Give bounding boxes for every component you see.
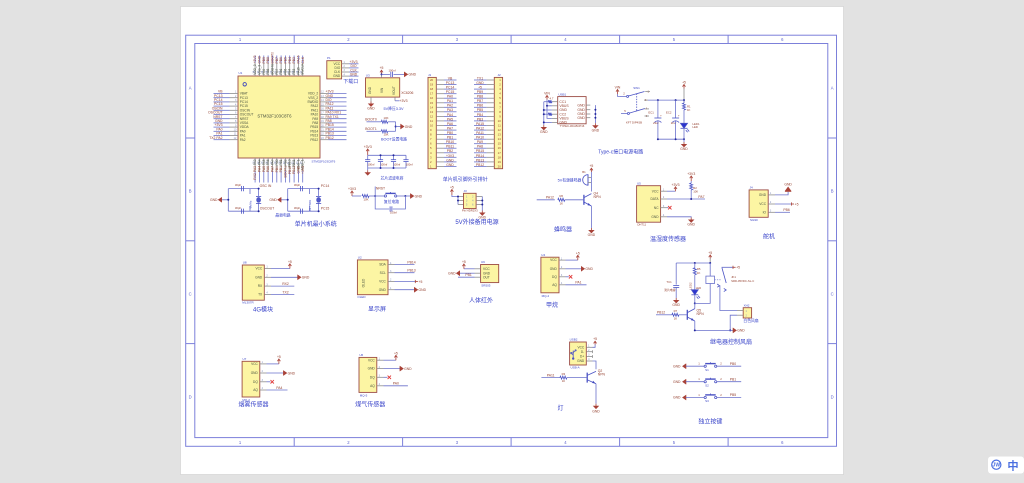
pin 2 (J2) net GND: [474, 81, 501, 87]
svg-text:J1: J1: [428, 73, 432, 77]
pin NC (U5): [654, 205, 667, 210]
svg-text:GND: GND: [302, 276, 310, 280]
svg-text:中: 中: [1008, 458, 1019, 472]
svg-text:PB0: PB0: [730, 362, 737, 366]
svg-text:VB: VB: [448, 76, 453, 80]
svg-text:16: 16: [498, 146, 502, 150]
svg-text:PA4: PA4: [258, 166, 262, 172]
svg-text:19: 19: [498, 160, 502, 164]
crystal oscillator circuit 32.768K: [288, 189, 319, 212]
pin PB11 (U1 bottom 10): [292, 158, 297, 183]
svg-text:10K: 10K: [384, 116, 389, 120]
pin GND (U8): [255, 275, 271, 280]
ground (relay): [733, 328, 736, 332]
ground (filter caps): [365, 168, 370, 175]
svg-text:OUT: OUT: [483, 275, 490, 279]
svg-text:18: 18: [498, 155, 502, 159]
ground (usb left): [540, 125, 548, 134]
ground (key S1): [673, 362, 704, 369]
svg-text:PA12: PA12: [476, 127, 484, 131]
power +5 (relay): [708, 251, 712, 263]
power +5 (typec out): [682, 81, 686, 104]
svg-text:MQ-5: MQ-5: [360, 394, 368, 398]
pin PA3 (U1 bottom 1): [253, 158, 258, 183]
pin 17 (J2) net PB15: [474, 149, 501, 155]
capacitor 100nf (filter C2): [378, 154, 388, 169]
pin 20 (J1) net VB: [430, 76, 457, 82]
pin 5 (J1) net PB11: [430, 145, 457, 151]
resistor R1 1K: [683, 100, 692, 126]
svg-text:GND: GND: [476, 81, 484, 85]
pin PB13 (U1 right 11): [310, 132, 346, 138]
svg-text:GND: GND: [367, 107, 375, 111]
svg-text:GND: GND: [592, 129, 600, 133]
svg-text:GND: GND: [673, 364, 681, 368]
svg-text:GND: GND: [687, 223, 695, 227]
svg-text:R6: R6: [560, 194, 564, 198]
svg-text:TX2: TX2: [282, 290, 288, 294]
connector P1 download port: [327, 56, 342, 79]
wire filter cap bus: [368, 155, 406, 168]
svg-text:PA11: PA11: [476, 131, 484, 135]
capacitor 100nf (filter C1): [365, 155, 375, 168]
no-connect X (mq2 DQ): [267, 380, 274, 383]
pin 6 (J1) net PB10: [430, 140, 457, 146]
svg-text:GND: GND: [737, 329, 745, 333]
svg-text:XC6206: XC6206: [401, 91, 413, 95]
power +5 (oled): [395, 280, 423, 284]
pin SDA (U2): [379, 262, 394, 267]
svg-text:U4: U4: [541, 253, 545, 257]
svg-text:GND: GND: [673, 380, 681, 384]
svg-text:+5: +5: [450, 186, 454, 190]
svg-text:B: B: [831, 189, 834, 194]
wire key S1 to PB0: [717, 362, 741, 367]
svg-text:30pF: 30pF: [235, 206, 242, 210]
svg-text:1K: 1K: [674, 316, 678, 320]
svg-text:GND: GND: [446, 158, 454, 162]
svg-text:5V有源蜂鸣器: 5V有源蜂鸣器: [558, 177, 582, 182]
pin DIO (P1): [335, 64, 359, 70]
svg-text:SRD-05VDC-SL-C: SRD-05VDC-SL-C: [731, 279, 754, 283]
svg-text:TX2 PA2: TX2 PA2: [209, 136, 222, 140]
pin 5 (J2) net PB8: [474, 95, 501, 101]
sensor U9 PIR SR505: [481, 260, 499, 287]
svg-text:GND: GND: [577, 359, 585, 363]
svg-text:GND: GND: [672, 303, 680, 307]
svg-text:GND: GND: [251, 371, 259, 375]
capacitor 30pF (bottom, Y1): [235, 206, 244, 214]
pin GND (USB1 right): [577, 112, 590, 116]
wire fan pin2 to gnd: [729, 315, 737, 331]
pin GND (U9): [475, 271, 491, 275]
capacitor 100nf (filter C4): [403, 155, 413, 168]
pin 2 (J1) net GND: [430, 158, 457, 164]
pin PA4 (U1 bottom 2): [257, 158, 262, 183]
svg-text:11: 11: [498, 124, 501, 128]
pin 3 (J2) net +5: [474, 86, 501, 92]
pin GND (USB1 left): [552, 108, 568, 112]
pin GND (USB1 left): [552, 121, 568, 125]
pin VDD_1 (U1 bottom 12): [300, 158, 305, 183]
pin AQ (U7): [253, 387, 266, 392]
svg-text:煤气传感器: 煤气传感器: [355, 400, 385, 408]
pin 15 (J2) net PA9: [474, 140, 501, 146]
pin 10 (J2) net PB3: [474, 117, 501, 123]
pin 18 (J2) net PB14: [474, 154, 501, 160]
svg-text:GND: GND: [415, 194, 423, 198]
svg-text:GND: GND: [759, 193, 767, 197]
svg-text:GND: GND: [255, 275, 263, 279]
svg-text:B: B: [189, 189, 192, 194]
wire IO to PB6: [775, 208, 790, 212]
svg-text:10: 10: [498, 119, 502, 123]
pin 6 (J2) net PB7: [474, 99, 501, 105]
pin PB3 (U1 top 10): [292, 56, 297, 77]
svg-text:30pF: 30pF: [294, 183, 301, 187]
pin PB10 (U1 bottom 9): [287, 158, 292, 183]
resistor R3 1K (lamp base): [541, 372, 587, 383]
svg-text:+5: +5: [394, 351, 398, 355]
svg-text:NC: NC: [654, 206, 659, 210]
ground (key S3): [673, 393, 704, 400]
svg-text:16: 16: [430, 96, 434, 100]
wire buzzer to collector: [590, 172, 592, 192]
svg-text:+5: +5: [795, 202, 799, 206]
wire OUT to PB1 (pir): [458, 273, 475, 277]
svg-text:IO: IO: [763, 210, 767, 214]
svg-text:ML307R: ML307R: [242, 300, 254, 304]
svg-text:CLK: CLK: [301, 56, 305, 63]
svg-text:GND: GND: [350, 72, 358, 76]
svg-text:VCC: VCC: [368, 358, 375, 362]
pin VSS_1 (U1 bottom 11): [296, 158, 301, 183]
svg-text:30pF: 30pF: [235, 183, 242, 187]
svg-text:AQ: AQ: [552, 283, 557, 287]
ground (reset): [404, 194, 422, 198]
svg-text:SG90: SG90: [750, 218, 758, 222]
ground (pir): [448, 271, 474, 275]
svg-text:PB1: PB1: [465, 273, 472, 277]
pin GND (U7): [251, 370, 267, 375]
pin PA0 (U1 left 10): [214, 127, 246, 133]
svg-text:芯片滤波电容: 芯片滤波电容: [381, 176, 404, 181]
svg-text:U6: U6: [359, 353, 363, 357]
pin 15 (J1) net PA1: [430, 99, 457, 105]
svg-text:瓷片电容: 瓷片电容: [664, 288, 675, 292]
pin VCC (U9): [475, 267, 491, 271]
pin 1 (J1) net GND: [430, 163, 457, 169]
pin VDDA (U1 left 9): [214, 123, 250, 129]
svg-text:+3V3: +3V3: [348, 187, 356, 191]
node OSC IN: [258, 184, 272, 190]
svg-text:U1: U1: [239, 71, 243, 75]
svg-text:19: 19: [430, 83, 434, 87]
svg-text:PA10: PA10: [476, 136, 484, 140]
svg-text:PB1: PB1: [730, 377, 737, 381]
svg-text:PA3: PA3: [447, 108, 453, 112]
svg-text:PB6: PB6: [477, 104, 484, 108]
svg-text:GND: GND: [405, 125, 413, 129]
wire TX to TX2: [271, 290, 294, 294]
svg-text:独立按键: 独立按键: [698, 418, 722, 426]
pin VCC (P1): [333, 60, 358, 66]
svg-text:12: 12: [430, 114, 434, 118]
power +5 (backup header): [450, 190, 453, 196]
power +5 (4G): [271, 260, 292, 269]
ground (regulator input cap): [405, 72, 408, 76]
wire typec bottom bus: [657, 138, 685, 142]
svg-text:+3V3: +3V3: [399, 99, 407, 103]
wire AQ to PA4 (mq2): [267, 386, 288, 390]
pin PA2 (U1 left 12): [209, 136, 246, 142]
resistor R5 1K (relay led): [693, 263, 701, 290]
ground (dht): [667, 217, 696, 227]
resistor R6 1K (buzzer base): [537, 194, 584, 205]
svg-text:100nf: 100nf: [406, 162, 413, 166]
svg-text:GND: GND: [368, 86, 372, 94]
resistor R4 5.1K (CC1): [544, 97, 554, 104]
relay JK1 contacts: [717, 267, 754, 291]
power +5 (pir): [462, 260, 475, 269]
ground (oled): [395, 288, 427, 292]
pin OSCIN (U1 left 5): [212, 106, 251, 112]
svg-text:Type-c接口电源电路: Type-c接口电源电路: [598, 149, 643, 156]
crystal oscillator circuit 8MHz: [228, 189, 258, 212]
pin DQ (U7): [253, 379, 266, 384]
wire VBUS rail: [546, 100, 552, 119]
pin 12 (J1) net PA4: [430, 113, 457, 119]
pin SWCLK (U1 top 12): [300, 56, 305, 77]
svg-text:1K: 1K: [687, 108, 691, 112]
svg-text:PA7: PA7: [447, 127, 453, 131]
svg-text:D: D: [189, 395, 192, 400]
wire DATA to PA7: [667, 195, 705, 200]
pin NRST (U1 left 7): [213, 115, 248, 121]
display U2 OLED: [357, 256, 388, 299]
svg-text:STM32F103C8T6: STM32F103C8T6: [257, 113, 292, 118]
svg-text:MQ-4: MQ-4: [542, 294, 550, 298]
svg-text:PA12: PA12: [546, 196, 554, 200]
svg-text:温湿度传感器: 温湿度传感器: [650, 235, 686, 243]
svg-text:11: 11: [430, 119, 433, 123]
svg-text:GND: GND: [210, 198, 218, 202]
svg-text:100nf: 100nf: [389, 69, 396, 73]
ground (usb right): [593, 123, 598, 128]
svg-text:PB11: PB11: [446, 145, 454, 149]
capacitor TC1: [664, 263, 679, 298]
pin VSS_2 (U1 right 2): [308, 94, 346, 100]
wire SDA to PB14: [395, 261, 416, 265]
transistor Q2 NPN (lamp): [587, 369, 605, 384]
transistor Q5 NPN (relay): [687, 303, 704, 321]
pin 3 (J1) net +3V3: [430, 154, 457, 160]
pin GND (USB1 right): [577, 108, 590, 112]
pin TX (U8): [258, 292, 271, 297]
svg-text:GND: GND: [404, 367, 412, 371]
svg-text:R7: R7: [674, 309, 678, 313]
pin VSSA (U1 left 8): [214, 119, 250, 125]
power +3V3 (reset): [351, 191, 354, 196]
svg-text:GND: GND: [379, 288, 387, 292]
svg-text:GND: GND: [540, 130, 548, 134]
connector J4 servo SG90: [749, 186, 768, 222]
svg-text:PA4: PA4: [276, 386, 282, 390]
buzzer B1: [558, 170, 592, 185]
switch SW1 KFT DIP4SB: [620, 86, 650, 125]
svg-text:14: 14: [498, 137, 502, 141]
pin GND (U5): [651, 214, 667, 219]
ground (regulator GND pin): [367, 97, 375, 111]
pin VCC (U5): [652, 188, 667, 193]
svg-text:30pF: 30pF: [294, 206, 301, 210]
svg-text:C: C: [831, 292, 834, 297]
browser toolbar icons: [988, 457, 1024, 474]
svg-text:PB13: PB13: [476, 158, 484, 162]
pin PB1 (U1 bottom 7): [279, 158, 284, 183]
svg-text:5V降压3.3V: 5V降压3.3V: [383, 106, 404, 111]
wire gnd rail (backup header): [476, 197, 483, 211]
resistor R7 1K (relay base): [656, 309, 687, 320]
svg-text:4G模块: 4G模块: [253, 305, 273, 313]
svg-text:PC13: PC13: [446, 81, 455, 85]
svg-text:BOOT0: BOOT0: [365, 118, 377, 122]
svg-text:D+: D+: [580, 355, 584, 359]
svg-text:GND: GND: [577, 116, 585, 120]
svg-text:VIN: VIN: [544, 91, 550, 95]
svg-text:AQ: AQ: [370, 384, 375, 388]
svg-text:PB2: PB2: [447, 149, 454, 153]
sensor U6 MQ-5: [359, 353, 377, 398]
svg-text:S3: S3: [705, 399, 709, 403]
connector J1 header 20pin: [428, 73, 436, 169]
pin PA10 (U1 right 6): [311, 111, 347, 117]
resistor R2 10K (dht pullup): [687, 172, 698, 199]
wire key S3 to PB5: [717, 393, 741, 398]
pin PB15 (U1 right 9): [310, 123, 346, 129]
svg-text:GND: GND: [446, 163, 454, 167]
pin OUT (U9): [475, 275, 490, 279]
svg-text:甲烷: 甲烷: [546, 301, 558, 309]
svg-text:蜂鸣器: 蜂鸣器: [554, 225, 572, 233]
svg-text:+5: +5: [288, 260, 292, 264]
op-amp U1 STM32F103C8T6 MCU: [238, 71, 336, 163]
pin PB2 (U1 bottom 8): [283, 158, 288, 183]
svg-text:PB5: PB5: [730, 393, 737, 397]
wire usb2 gnd to collector: [593, 361, 597, 369]
pin DATA (U5): [650, 196, 667, 201]
svg-text:NPN: NPN: [697, 312, 705, 316]
wire RX to RX2: [271, 282, 294, 286]
svg-text:17: 17: [430, 92, 434, 96]
svg-text:DQ: DQ: [370, 375, 375, 379]
svg-text:PB12: PB12: [476, 163, 484, 167]
svg-text:10K: 10K: [384, 133, 389, 137]
svg-text:5V外接备用电源: 5V外接备用电源: [455, 218, 498, 226]
svg-text:100nf: 100nf: [393, 162, 400, 166]
svg-text:P1: P1: [327, 56, 331, 60]
svg-text:PA7: PA7: [271, 166, 275, 172]
pin 4 (J1) net PB2: [430, 149, 457, 155]
svg-text:+5: +5: [419, 280, 423, 284]
svg-text:白色风扇: 白色风扇: [743, 318, 758, 323]
pin 16 (J1) net PA0: [430, 95, 457, 101]
svg-text:U2: U2: [358, 256, 362, 260]
pin PB7 (U1 top 6): [274, 56, 279, 77]
ground (mq4): [566, 267, 594, 271]
svg-text:NRST: NRST: [376, 186, 385, 190]
pin PC15 (U1 left 4): [214, 102, 249, 108]
pin 20 (J2) net PB12: [474, 163, 501, 169]
sensor U4 MQ-4: [541, 253, 559, 298]
svg-text:15: 15: [498, 142, 502, 146]
pin CC2 (USB1 left): [552, 112, 566, 116]
svg-text:S1: S1: [705, 368, 709, 372]
wire relay top bus: [676, 262, 711, 264]
ground (buzzer): [588, 206, 596, 237]
svg-text:32.768K: 32.768K: [308, 200, 312, 211]
svg-text:舵机: 舵机: [763, 233, 775, 241]
wire AQ to PA0 (mq5): [384, 382, 408, 386]
resistor R9 10K (BOOT1): [365, 127, 395, 136]
power +5 (servo): [775, 202, 799, 206]
pin GND (P1): [333, 72, 358, 78]
svg-text:USB2: USB2: [570, 338, 578, 342]
pin D- (USB2): [581, 349, 593, 354]
svg-text:VCC: VCC: [379, 280, 386, 284]
svg-text:GND: GND: [588, 233, 596, 237]
connector J2 header 20pin: [494, 73, 502, 169]
ground (lamp): [592, 384, 600, 414]
wire gnd rail left (usb): [543, 102, 552, 125]
pin AQ (U4): [552, 282, 565, 287]
capacitor 100nf (reset): [375, 196, 405, 215]
no-connect X (dht NC): [667, 206, 672, 209]
svg-text:VCC: VCC: [550, 258, 557, 262]
pin PA8 (U1 right 8): [312, 119, 346, 125]
pin PA6 (U1 bottom 4): [266, 158, 271, 183]
svg-text:PA9: PA9: [477, 140, 483, 144]
svg-text:PB15: PB15: [476, 149, 484, 153]
svg-text:U8: U8: [243, 261, 247, 265]
pin 13 (J1) net PA3: [430, 108, 457, 114]
svg-text:13: 13: [430, 110, 434, 114]
svg-text:PB4: PB4: [477, 113, 484, 117]
pin GND (J4): [759, 192, 775, 197]
svg-text:GND: GND: [577, 103, 585, 107]
node PC14: [318, 184, 330, 190]
pin PA9 (U1 right 7): [312, 115, 346, 121]
svg-text:U9: U9: [481, 260, 485, 264]
no-connect X (mq4 DQ): [566, 275, 573, 278]
svg-text:13: 13: [498, 133, 502, 137]
svg-text:VOUT: VOUT: [392, 86, 396, 95]
pin GND (U2): [379, 287, 395, 292]
svg-text:PB13: PB13: [407, 269, 415, 273]
svg-text:VCC: VCC: [759, 202, 766, 206]
regulator U3 XC6206: [366, 73, 414, 97]
crystal Y2 32.768K: [308, 196, 321, 211]
push button S1: [704, 362, 717, 372]
svg-text:PA0: PA0: [447, 95, 453, 99]
pin PB4 (U1 top 9): [287, 56, 292, 77]
svg-text:人体红外: 人体红外: [469, 297, 493, 305]
pin CC1 (USB1 left): [552, 100, 566, 104]
pin 11 (J2) net PA15: [474, 122, 501, 128]
pin 7 (J1) net PB1: [430, 136, 457, 142]
svg-text:D-: D-: [581, 350, 584, 354]
svg-text:PB1: PB1: [447, 136, 454, 140]
